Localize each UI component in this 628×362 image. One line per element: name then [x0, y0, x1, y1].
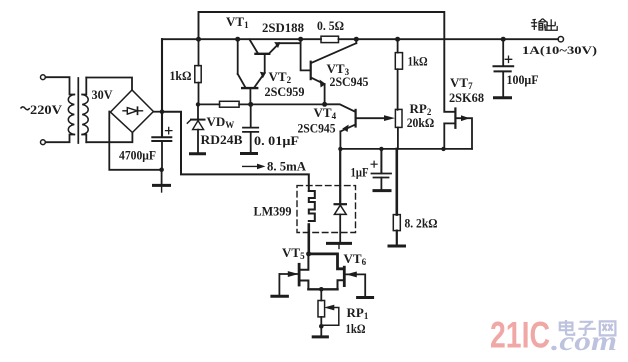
svg-text:0. 01μF: 0. 01μF [254, 133, 299, 148]
svg-text:220V: 220V [30, 102, 63, 117]
svg-text:8. 2kΩ: 8. 2kΩ [405, 216, 438, 231]
svg-text:2SK68: 2SK68 [449, 90, 484, 105]
svg-text:30V: 30V [92, 87, 114, 102]
svg-text:1μF: 1μF [351, 165, 369, 180]
svg-text:1kΩ: 1kΩ [346, 321, 366, 336]
svg-text:1kΩ: 1kΩ [408, 54, 428, 69]
svg-text:2SD188: 2SD188 [262, 20, 304, 35]
svg-text:20kΩ: 20kΩ [407, 115, 435, 130]
svg-text:1kΩ: 1kΩ [170, 68, 192, 83]
svg-text:21IC: 21IC [490, 315, 550, 356]
svg-text:0. 5Ω: 0. 5Ω [317, 18, 344, 33]
svg-text:2SC945: 2SC945 [298, 121, 336, 136]
svg-text:4700μF: 4700μF [119, 148, 156, 163]
svg-text:8. 5mA: 8. 5mA [267, 159, 307, 174]
svg-text:2SC945: 2SC945 [330, 74, 369, 89]
svg-text:1A(10~30V): 1A(10~30V) [522, 43, 597, 57]
svg-text:2SC959: 2SC959 [265, 84, 305, 99]
svg-text:LM399: LM399 [254, 204, 292, 219]
svg-text:100μF: 100μF [507, 72, 539, 87]
svg-text:RD24B: RD24B [201, 132, 243, 147]
